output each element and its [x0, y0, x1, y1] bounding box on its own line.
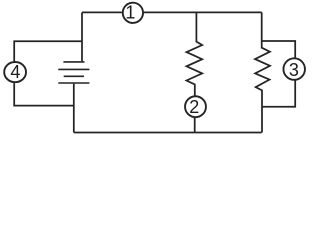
svg-text:4: 4: [10, 62, 20, 82]
svg-text:1: 1: [125, 3, 135, 23]
svg-text:2: 2: [189, 97, 199, 117]
svg-text:3: 3: [289, 60, 299, 80]
